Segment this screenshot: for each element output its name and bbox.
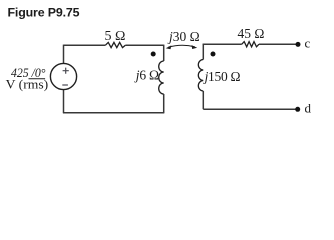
wire left-loop bottom (63, 112, 164, 114)
wire left coil top stub (163, 45, 165, 61)
angle underline (29, 78, 46, 80)
svg-text:d: d (305, 101, 312, 116)
polarity dot right coil (211, 52, 216, 57)
voltage source plus sign (63, 68, 69, 74)
terminal c dot (296, 42, 301, 47)
wire left coil bottom stub (163, 94, 165, 113)
voltage source Vs circle (50, 63, 76, 89)
inductor L2 j150 ohm coil (198, 60, 203, 92)
wire right-loop bottom to terminal d (203, 108, 296, 110)
svg-text:Figure P9.75: Figure P9.75 (8, 6, 80, 20)
resistor 45 ohm zigzag (242, 42, 259, 47)
mutual arrow left head (166, 45, 172, 49)
wire right coil bottom stub (202, 91, 204, 109)
svg-text:c: c (305, 36, 311, 51)
terminal d dot (295, 107, 300, 112)
inductor L1 j6 ohm coil (159, 61, 164, 94)
svg-text:j6 Ω: j6 Ω (134, 67, 159, 82)
resistor 5 ohm zigzag (105, 42, 125, 47)
wire left-loop top right segment (125, 44, 163, 46)
wire left-loop left top stub (63, 45, 65, 64)
svg-text:45 Ω: 45 Ω (238, 26, 265, 41)
wire right coil top stub (202, 44, 204, 60)
wire right-loop top segment to terminal c (259, 43, 296, 45)
svg-text:j30 Ω: j30 Ω (167, 29, 200, 44)
svg-text:V (rms): V (rms) (6, 76, 49, 91)
mutual arrow right head (192, 45, 198, 49)
wire right-loop top segment left of resistor (203, 43, 242, 45)
wire left-loop left bottom stub (63, 90, 65, 113)
mutual inductance arrow (double-headed arc) (168, 45, 195, 47)
voltage source minus sign (62, 84, 68, 86)
svg-text:j150 Ω: j150 Ω (203, 69, 241, 84)
polarity dot left coil (151, 52, 156, 57)
wire left-loop top left segment (64, 44, 106, 46)
svg-text:5 Ω: 5 Ω (105, 29, 126, 44)
